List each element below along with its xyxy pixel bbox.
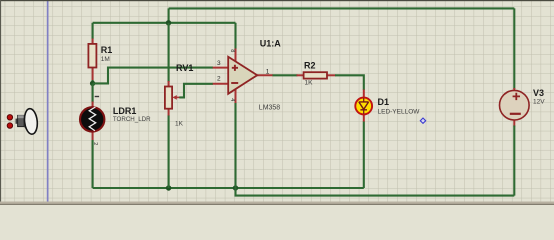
junction op-amp V- / bottom rail [233,185,238,190]
wire top rail left drop [168,8,170,22]
wire R1 bottom stub [92,80,94,84]
resistor R2 [297,60,336,86]
svg-text:8: 8 [229,49,235,52]
svg-text:TORCH_LDR: TORCH_LDR [113,116,151,123]
wire V+ drop to op-amp pin 8 [234,23,236,49]
svg-text:4: 4 [229,98,235,101]
battery V3 [500,88,546,127]
svg-text:1M: 1M [101,56,110,63]
wire R2 to D1 [335,75,364,90]
svg-text:D1: D1 [378,97,390,107]
svg-text:R1: R1 [101,45,113,55]
wire R1 top [92,23,94,39]
wire RV1 column [168,23,170,82]
svg-text:2: 2 [217,76,221,83]
svg-text:1: 1 [266,69,270,76]
junction RV1 / bottom rail [166,185,171,190]
svg-text:R2: R2 [304,60,316,70]
wire V+ feed [93,22,236,24]
svg-text:3: 3 [217,60,221,67]
wire RV1 to bottom rail [168,116,170,189]
wire D1 to bottom rail [363,122,365,189]
svg-text:LED-YELLOW: LED-YELLOW [378,109,421,116]
wire V3 top drop [513,8,515,89]
svg-text:12V: 12V [533,99,545,106]
wire op-amp pin 4 to bottom [234,103,236,189]
wire lower rail to V3 [236,188,515,196]
svg-text:1K: 1K [175,121,184,128]
svg-text:U1:A: U1:A [260,38,282,48]
wire top rail [169,7,515,9]
wire LDR to bottom rail [92,140,94,188]
wire jog from node to op-amp pin 3 [93,68,213,84]
junction at V+ feed [166,20,171,25]
junction node below R1 [90,81,95,86]
op-amp U1:A [213,38,282,111]
svg-text:LM358: LM358 [259,104,281,111]
wire op-amp output to R2 [273,74,298,76]
svg-text:LDR1: LDR1 [113,106,137,116]
svg-text:V3: V3 [533,88,544,98]
top and left dark window edges (decorative) [0,0,554,1]
sheet blue guide line (decorative) [47,0,49,202]
wire RV1 wiper to pin 2 [179,84,213,98]
LDR LDR1 [80,96,151,146]
wire bottom rail [93,187,364,189]
LED D1 [355,90,420,123]
bottom window strip (decorative) [0,202,554,206]
resistor R1 [88,39,112,82]
svg-text:1K: 1K [305,79,314,86]
speaker icon [16,108,39,135]
red indicator dots [7,115,12,129]
wire V3 to lower rail [513,126,515,196]
potentiometer RV1 [165,63,193,128]
origin marker node (blue) [420,118,425,123]
pin 1 mark [95,96,99,97]
svg-text:RV1: RV1 [176,63,193,73]
wire node down to LDR [92,83,94,102]
